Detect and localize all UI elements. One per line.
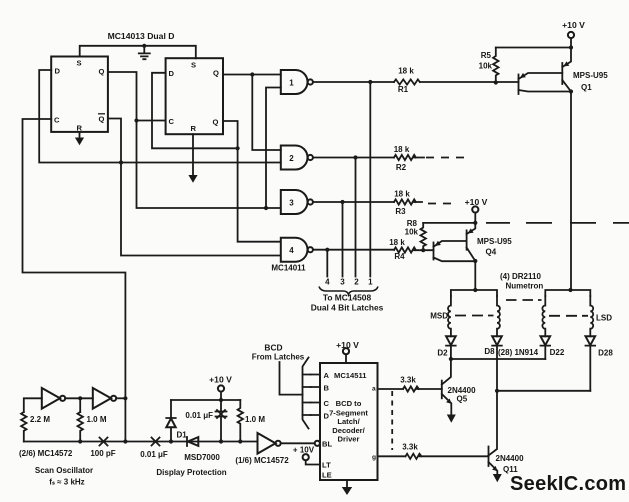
transistor Q11 2N4400 [489,391,498,456]
node rail junction [569,45,573,49]
svg-text:+10 V: +10 V [209,375,232,385]
wire osc input [24,398,42,412]
ground MC14511 [346,480,348,487]
numitron MSD top bar [451,290,497,296]
numitron LSD top bar [545,290,590,296]
flip-flop U1a MC14013 [51,57,108,132]
svg-text:LSD: LSD [596,314,612,323]
wire dashed after R2 [426,157,464,159]
node D1 branch [169,439,173,443]
resistor 1.0M protection [238,400,243,442]
resistor 3.3k segment a [378,388,404,390]
wire gate4 output to Q4 base [313,249,434,252]
svg-text:Display Protection: Display Protection [156,468,226,477]
svg-text:D2: D2 [437,349,448,358]
svg-text:3.3k: 3.3k [402,443,418,452]
svg-text:10k: 10k [405,228,419,237]
svg-text:2N4400: 2N4400 [496,454,525,463]
bus fan to latch inputs [303,358,309,429]
node bus3 tap [340,200,344,204]
resistor R3 18k [394,199,416,204]
svg-text:Q: Q [99,67,105,76]
wire protection top line [171,399,240,401]
pin BL bubble [315,441,320,446]
svg-text:BL: BL [322,439,332,448]
svg-text:Q1: Q1 [581,83,592,92]
wire bus line 2 [355,158,357,277]
wire S bus [80,46,196,59]
svg-text:Latch/: Latch/ [337,417,360,426]
diode D2 [446,336,456,345]
svg-text:2: 2 [354,278,359,287]
node FF1 Q at FF2 C tap [134,118,138,122]
svg-text:Scan Oscillator: Scan Oscillator [35,466,93,475]
wire gate2 output [313,157,424,159]
wire FF2 C input [137,120,166,122]
svg-text:LT: LT [322,461,331,470]
svg-text:a: a [372,386,376,393]
brace under bus [319,287,378,295]
gate 4 MC14011 NAND [281,238,308,262]
wire dashed between digits [506,299,542,301]
wire osc out [116,397,125,399]
svg-text:Dual 4 Bit Latches: Dual 4 Bit Latches [311,303,384,313]
capacitor 0.01uF shunt [216,400,227,442]
svg-text:B: B [324,384,330,393]
wire osc mid [65,397,93,399]
filament coil MSD left [448,296,451,336]
svg-text:C: C [54,116,60,125]
resistor 3.3k segment g [378,455,406,457]
diode MSD7000 [186,437,188,446]
wire inverter out to BL [281,442,315,444]
svg-text:Q: Q [99,115,105,124]
svg-text:2: 2 [289,154,294,163]
inverter 1/6 MC14572 [258,433,276,454]
svg-text:C: C [169,117,175,126]
svg-text:MSD7000: MSD7000 [184,453,220,462]
svg-text:Q4: Q4 [486,248,497,257]
svg-text:D28: D28 [598,349,613,358]
gate 1 MC14011 NAND [281,70,308,94]
wire FF2 Qbar down to gate4 top input [223,121,280,242]
node bus4 tap [325,248,329,252]
inverter scan osc 1 [42,388,60,409]
svg-text:MC14011: MC14011 [271,264,306,273]
node R8 base junction [421,248,425,252]
wire FF1 D to gate2 input [39,70,281,163]
diode D28 [586,336,596,345]
svg-text:MPS-U95: MPS-U95 [477,237,512,246]
transistor Q1 MPS-U95 darlington [518,75,520,95]
gate 2 MC14011 NAND [281,146,308,170]
wire bus line 3 [342,202,344,277]
wire segment g bus [497,390,590,392]
wire BCD feed [280,362,303,395]
svg-text:D8: D8 [484,347,495,356]
node FF2 Q branch [250,72,254,76]
wire FF2 Q branch to gate2 top input [252,75,280,151]
svg-text:3: 3 [289,198,294,207]
transistor Q5 2N4400 [442,359,451,385]
resistor 1.0M osc [78,412,83,442]
node FF2 Qbar D junction [236,146,240,150]
svg-text:18 k: 18 k [394,189,410,198]
svg-text:Q5: Q5 [457,395,468,404]
svg-text:C: C [324,399,330,408]
node S bus junction [142,44,146,48]
svg-text:R1: R1 [398,85,409,94]
svg-text:R3: R3 [395,207,406,216]
svg-text:10k: 10k [479,62,493,71]
wire dashed digit rail [486,222,629,224]
svg-text:1: 1 [368,278,373,287]
svg-text:18 k: 18 k [389,238,405,247]
wire R5 top rail [496,47,571,49]
svg-text:Driver: Driver [338,435,360,444]
svg-text:(1/6) MC14572: (1/6) MC14572 [235,456,289,465]
svg-text:BCD to: BCD to [336,399,362,408]
node FF1 Qbar joins D line [119,160,123,164]
svg-text:4: 4 [289,246,294,255]
wire dashed after R3 [428,203,451,205]
wire FF2 R arrow [192,134,194,175]
svg-text:R2: R2 [396,163,407,172]
pin stubs A B C D [311,375,321,416]
svg-text:3: 3 [340,278,345,287]
capacitor 100pF [100,438,108,446]
svg-text:1.0 M: 1.0 M [87,415,107,424]
svg-text:S: S [77,59,82,68]
svg-text:1: 1 [289,78,294,87]
resistor R1 18k [394,79,420,84]
wire Q1 collector down to LSD [570,92,572,291]
IC MC14511 [320,363,378,480]
svg-text:(2/6) MC14572: (2/6) MC14572 [19,449,73,458]
node bus1 tap [368,80,372,84]
node R5 base junction [494,80,498,84]
svg-text:MC14511: MC14511 [334,371,367,380]
svg-text:LE: LE [322,471,332,480]
resistor R5 10k [493,48,498,83]
svg-text:D1: D1 [177,431,188,440]
svg-text:S: S [191,60,196,69]
svg-text:fₛ ≈ 3 kHz: fₛ ≈ 3 kHz [49,478,84,487]
svg-text:+ 10V: + 10V [293,446,315,455]
wire bus line 4 [326,250,328,277]
svg-text:D: D [169,69,175,78]
resistor R2 18k [394,155,416,160]
svg-text:100 pF: 100 pF [90,449,115,458]
svg-text:R: R [191,124,197,133]
wire gate1 output to Q1 base [313,81,519,83]
capacitor 0.01uF line [152,438,160,446]
svg-text:R4: R4 [394,252,405,261]
svg-text:Q: Q [213,69,219,78]
svg-text:+10 V: +10 V [562,20,585,30]
transistor Q4 MPS-U95 darlington [433,243,435,260]
svg-text:MSD: MSD [430,312,448,321]
svg-text:1.0 M: 1.0 M [245,415,265,424]
wire R8 top rail [423,222,475,224]
wire FF1 Qbar down to gate4 input line [108,119,280,256]
svg-text:A: A [324,371,330,380]
svg-text:To MC14508: To MC14508 [323,293,372,303]
wire gate1 bottom input down to gate3 line [266,88,281,209]
svg-text:2.2 M: 2.2 M [30,415,50,424]
svg-text:(4) DR2110: (4) DR2110 [500,272,541,281]
svg-text:MPS-U95: MPS-U95 [573,71,608,80]
gate 3 MC14011 NAND [281,190,308,214]
wire FF2 Q to gate1 top input [223,74,281,76]
svg-text:From Latches: From Latches [252,353,305,362]
wire gate3 output [313,201,422,203]
flip-flop U1b MC14013 [166,58,223,134]
resistor R4 18k [394,247,416,252]
svg-text:7-Segment: 7-Segment [329,408,368,417]
resistor R8 10k [421,223,426,250]
wire dashed segments b-f [391,391,393,450]
ground S bus [139,46,150,59]
svg-text:4: 4 [325,278,330,287]
node gate3 input junction [264,206,268,210]
wire FF2 D to Qbar net [152,73,238,149]
svg-text:Numetron: Numetron [506,282,544,291]
svg-text:Q: Q [213,118,219,127]
wire bottom line [24,441,258,443]
filament coil MSD right [497,296,500,336]
svg-text:MC14013 Dual D: MC14013 Dual D [108,31,175,41]
svg-text:BCD: BCD [264,343,282,353]
wire bus line 1 [369,82,371,277]
resistor 2.2M [21,412,26,442]
svg-text:0.01 μF: 0.01 μF [140,450,168,459]
svg-text:18 k: 18 k [398,67,414,76]
svg-text:0.01 μF: 0.01 μF [185,411,213,420]
svg-text:D22: D22 [550,348,565,357]
svg-text:g: g [372,454,376,461]
inverter scan osc 2 [93,388,111,409]
filament coil LSD left [542,296,545,336]
diode D22 [541,336,551,345]
svg-text:SeekIC.com: SeekIC.com [510,473,626,495]
svg-text:18 k: 18 k [394,145,410,154]
wire dashed LSD pair [549,315,588,317]
svg-text:3.3k: 3.3k [400,376,416,385]
wire segment a bus [451,358,545,360]
diode D1 [170,427,172,441]
wire Q4 collector down to MSD [474,261,476,290]
diode D8 [492,336,502,345]
wire FF1 C to oscillator output [23,119,126,442]
svg-text:R5: R5 [481,51,492,60]
wire FF1 Q to FF2 C and gate3 line [108,72,281,208]
wire FF1 R arrow [79,132,81,138]
filament coil LSD right [590,296,593,336]
wire dashed MSD pair [455,315,494,317]
svg-text:D: D [55,67,61,76]
node bus2 tap [353,155,357,159]
node rail junction Q4 [473,221,477,225]
svg-text:(28) 1N914: (28) 1N914 [498,348,539,357]
